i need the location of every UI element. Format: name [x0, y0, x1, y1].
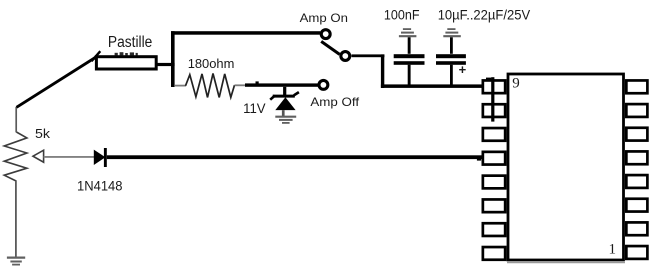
switch pole circle: [341, 52, 350, 61]
IC right pad 4: [626, 151, 647, 164]
tick on pad1 top: [486, 78, 491, 81]
IC right pad 8: [626, 246, 647, 259]
wire branch vertical: [171, 31, 175, 87]
svg-text:1: 1: [609, 241, 617, 257]
wire bus corner vertical: [381, 54, 384, 88]
svg-text:+: +: [459, 62, 467, 77]
wiper arrow of potentiometer: [33, 150, 44, 162]
switch contact circle Amp Off: [319, 80, 328, 89]
resistor R2 right lead: [235, 84, 247, 86]
resistor Pastille box: [96, 57, 156, 69]
IC left pad 7: [483, 223, 505, 236]
IC right pad 7: [626, 222, 647, 235]
svg-text:Pastille: Pastille: [108, 34, 152, 51]
wire diode to IC pin (thick): [107, 155, 484, 159]
wire switch pole to bus corner: [352, 54, 385, 57]
zener diode D2 triangle: [275, 97, 295, 110]
wire 180ohm to Amp Off (thick): [245, 83, 318, 86]
diode D1 1N4148: [94, 150, 106, 165]
zener hook left: [270, 96, 275, 100]
svg-text:100nF: 100nF: [384, 7, 420, 23]
IC left pad 6: [483, 199, 505, 212]
wire pot top lead: [15, 107, 17, 132]
ground zener: [275, 117, 296, 123]
wire pot bottom lead: [15, 181, 17, 258]
svg-text:Amp On: Amp On: [300, 11, 348, 25]
IC U1 body: [508, 74, 624, 260]
wire wiper to diode: [44, 156, 95, 158]
ground above 100nF: [399, 29, 417, 36]
nub on wire: [256, 81, 259, 83]
IC left pad 8: [483, 247, 505, 260]
capacitor C1 100nF top stub: [408, 37, 411, 54]
svg-text:5k: 5k: [35, 126, 51, 141]
switch contact circle Amp On: [321, 30, 330, 39]
resistor R2 180ohm zigzag: [186, 74, 235, 98]
capacitor C2 bottom stub: [450, 65, 453, 86]
ground above C2: [443, 29, 461, 36]
remnant covered text under label: [115, 52, 138, 55]
svg-text:180ohm: 180ohm: [188, 56, 235, 71]
wire Pastille box to branch: [156, 63, 175, 66]
svg-text:11V: 11V: [243, 100, 266, 116]
tick mark at Pastille junction: [92, 51, 101, 61]
zener hook right: [294, 92, 299, 95]
resistor R2 180ohm left lead: [175, 85, 186, 87]
zener diode D2 top stub: [283, 87, 286, 96]
svg-text:9: 9: [512, 75, 520, 91]
wire bus to IC pin9: [381, 84, 484, 88]
IC right pad 3: [626, 128, 647, 141]
capacitor C2 top stub: [450, 37, 453, 54]
IC right pad 1: [626, 80, 647, 93]
jumper wire through pads 1-2: [491, 77, 494, 121]
capacitor C1 plates: [394, 54, 425, 58]
svg-text:10µF..22µF/25V: 10µF..22µF/25V: [438, 7, 531, 23]
shadow under IC bottom: [507, 262, 625, 264]
potentiometer R1 5k zigzag: [4, 132, 27, 181]
switch lever: [321, 41, 339, 54]
IC right pad 6: [626, 199, 647, 212]
IC left pad 1: [483, 80, 505, 93]
IC left pad 4: [483, 152, 505, 165]
nub at wire end near pad4: [477, 159, 481, 161]
ground pot: [7, 258, 25, 265]
zener bottom stub: [282, 110, 285, 116]
zener diode D2 cathode bar: [273, 95, 295, 98]
IC left pad 5: [483, 176, 505, 189]
IC right pad 2: [626, 104, 647, 117]
IC left pad 3: [483, 128, 505, 141]
svg-text:1N4148: 1N4148: [77, 179, 123, 194]
IC left pad 2: [483, 104, 505, 117]
IC right pad 5: [626, 175, 647, 188]
capacitor C1 bottom stub: [408, 65, 411, 86]
capacitor C2 plates: [436, 54, 466, 58]
wire pot top to Pastille (diagonal): [17, 57, 97, 108]
wire branch top to Amp On: [171, 31, 320, 35]
svg-text:Amp Off: Amp Off: [310, 95, 359, 109]
